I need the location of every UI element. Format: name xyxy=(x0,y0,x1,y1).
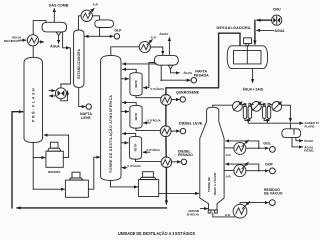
wire residue product xyxy=(240,203,268,205)
svg-text:GOL: GOL xyxy=(263,142,271,146)
drum pre-flash overhead xyxy=(42,22,67,35)
wire agua to CRU line xyxy=(257,28,285,33)
svg-text:D'ÁGUA: D'ÁGUA xyxy=(187,211,200,216)
svg-text:ÁGUA: ÁGUA xyxy=(275,28,286,33)
wire GOL product and return xyxy=(226,141,269,149)
furnace F3 vacuum xyxy=(138,172,158,197)
node querosene product xyxy=(176,91,200,103)
wire vacuum overhead to ejectors xyxy=(213,105,233,107)
heat-exchanger estabilizadora reboiler xyxy=(49,88,66,99)
label agua recircul xyxy=(4,34,22,43)
wire stripper3 vapor return xyxy=(123,134,136,137)
wire stripper1 draw xyxy=(121,78,129,80)
wire steam to vacuum tower xyxy=(187,209,208,217)
svg-text:ÁGUA: ÁGUA xyxy=(183,70,193,75)
svg-text:V. D'ÁGUA: V. D'ÁGUA xyxy=(150,86,164,91)
stripper retificadora 2 diesel leve xyxy=(130,105,142,128)
wire condenser to estab drum xyxy=(92,16,99,20)
node CRU feed xyxy=(272,7,282,25)
node diesel pesado product xyxy=(178,149,193,164)
condenser vessels stage 1 xyxy=(242,104,253,123)
svg-text:RETIF: RETIF xyxy=(134,112,138,120)
node diesel leve product xyxy=(179,122,203,134)
wire atm drum reflux to tower xyxy=(123,63,157,65)
ejector 2 xyxy=(252,102,262,112)
svg-text:GLP: GLP xyxy=(114,29,122,33)
svg-text:ESTABILIZADORA: ESTABILIZADORA xyxy=(77,48,81,79)
caption xyxy=(118,231,195,236)
drum estabilizadora overhead xyxy=(95,20,114,28)
wire atm overhead to condenser xyxy=(111,47,139,56)
svg-text:RETIF: RETIF xyxy=(134,143,138,151)
svg-text:ÓLEO: ÓLEO xyxy=(304,138,313,143)
heat-exchanger GOP cooler A.R xyxy=(226,162,249,178)
node GOL product xyxy=(263,142,275,153)
ejector 3 xyxy=(272,102,282,112)
wire atm drum boot water xyxy=(171,69,194,75)
svg-text:A.R: A.R xyxy=(93,3,99,7)
stripper retificadora 3 diesel pesado xyxy=(129,136,141,159)
stripper retificadora 1 querosene xyxy=(130,73,142,96)
heat-exchanger diesel leve xyxy=(160,126,171,137)
wire long crude return line bottom xyxy=(17,207,166,209)
wire stripper1 bottoms to exchanger xyxy=(136,96,161,98)
svg-text:ÁGUA: ÁGUA xyxy=(159,31,169,36)
svg-text:LEVE: LEVE xyxy=(81,116,91,120)
wire GOL draw xyxy=(224,147,234,149)
svg-text:A.R: A.R xyxy=(226,175,232,179)
wire F2 to atm tower xyxy=(88,157,99,189)
svg-text:PRÉ-FLASH: PRÉ-FLASH xyxy=(31,87,36,122)
wire crude feed into pre-flash xyxy=(12,112,23,208)
column pre-flash tower xyxy=(24,57,43,142)
wire drum line to stripper1 steam xyxy=(144,63,164,91)
svg-text:CRU: CRU xyxy=(273,7,281,11)
svg-text:V. D'ÁGUA: V. D'ÁGUA xyxy=(127,163,141,168)
svg-text:V. D'ÁGUA: V. D'ÁGUA xyxy=(147,147,161,152)
svg-text:RETIF: RETIF xyxy=(134,80,138,88)
wire agua up from atm drum xyxy=(159,31,169,56)
heat-exchanger querosene xyxy=(161,95,172,106)
ejector 1 xyxy=(233,102,243,112)
node nafta pesada product xyxy=(191,70,209,83)
wire diesel leve product xyxy=(171,130,180,132)
svg-text:V. D'ÁGUA: V. D'ÁGUA xyxy=(147,118,161,123)
wire pre-flash overhead to cooler to drum xyxy=(33,21,46,57)
svg-text:TORRE DE: TORRE DE xyxy=(207,177,211,192)
svg-text:DE VÁCUO: DE VÁCUO xyxy=(264,191,283,196)
wire F3 to vacuum tower xyxy=(159,192,199,194)
svg-text:RESID.: RESID. xyxy=(304,149,314,153)
heat-exchanger pre-flash overhead cooler xyxy=(19,35,44,46)
wire nafta pesada from drum xyxy=(160,65,190,81)
wire pre-flash bottoms xyxy=(33,143,64,190)
wire stripper3 bottoms to exchanger xyxy=(136,159,162,161)
wire GOP draw xyxy=(224,169,234,171)
svg-text:DIESEL LEVE: DIESEL LEVE xyxy=(179,122,203,126)
column estabilizadora xyxy=(74,30,84,87)
svg-text:DESSALGADORA: DESSALGADORA xyxy=(217,26,251,30)
wire gas comb xyxy=(49,2,69,22)
node nafta leve product xyxy=(80,104,92,120)
wire hotwell oil out xyxy=(296,138,314,144)
drum atm overhead xyxy=(154,55,178,69)
wire ejector train to hotwell xyxy=(248,105,290,128)
wire diesel pesado product xyxy=(172,161,181,163)
wire stripper2 draw xyxy=(121,111,129,113)
svg-text:PESADA: PESADA xyxy=(194,74,209,78)
wire querosene product xyxy=(171,99,179,101)
column vacuum tower xyxy=(200,107,224,213)
wire GOP product and return xyxy=(226,164,269,171)
svg-text:A.R: A.R xyxy=(151,36,157,40)
svg-text:UNIDADE DE DESTILAÇÃO A 3 ESTÁ: UNIDADE DE DESTILAÇÃO A 3 ESTÁGIOS xyxy=(118,231,195,236)
wire stripper1 vapor return xyxy=(123,69,137,72)
wire desalter crude out to preheat train xyxy=(166,33,240,204)
wire stripper2 vapor return xyxy=(123,103,137,106)
wire estabilizadora bottoms nafta leve xyxy=(79,87,86,106)
wire CRU to desalter xyxy=(255,20,272,44)
wire stripper2 steam xyxy=(144,118,161,123)
svg-text:TORRE DE DESTILAÇÃO ATMOSFÉRIC: TORRE DE DESTILAÇÃO ATMOSFÉRICA xyxy=(108,95,113,173)
wire stripper3 draw xyxy=(121,142,128,144)
wire gases to flare xyxy=(290,121,318,128)
heat-exchanger vacuum residue cooler A.R xyxy=(225,202,249,219)
wire stripper2 bottoms to exchanger xyxy=(136,128,161,130)
wire drum water out xyxy=(50,35,60,48)
svg-text:PESADO: PESADO xyxy=(178,153,193,157)
wire atm bottoms to F3 xyxy=(110,180,137,187)
node residuo de vacuo product xyxy=(264,187,283,206)
svg-text:FLARE: FLARE xyxy=(305,124,315,128)
svg-text:GOP: GOP xyxy=(265,163,273,167)
svg-text:ÁGUA + SAIS: ÁGUA + SAIS xyxy=(243,87,263,92)
wire steam to atm tower xyxy=(122,163,141,168)
svg-text:A.R: A.R xyxy=(226,153,232,157)
furnace F1 pre-flash reboiler xyxy=(46,142,63,174)
wire vacuum bottoms to cooler xyxy=(213,213,235,217)
furnace F2 atmospheric xyxy=(65,172,88,197)
wire estab drum to reflux and GLP xyxy=(85,28,113,37)
svg-text:ÁGUA: ÁGUA xyxy=(50,44,60,49)
heat-exchanger GOL cooler A.R xyxy=(226,140,249,157)
condenser vessels stage 2 xyxy=(261,104,272,123)
heat-exchanger estabilizadora condenser A.R xyxy=(81,3,99,22)
column atmospheric tower xyxy=(101,55,121,180)
svg-text:GÁS COMB: GÁS COMB xyxy=(49,2,69,7)
wire condenser to atm drum xyxy=(150,47,162,54)
vessel dessalgadora xyxy=(217,26,268,69)
svg-text:QUEROSENE: QUEROSENE xyxy=(176,91,200,95)
svg-text:RECIRCUL.: RECIRCUL. xyxy=(4,39,21,43)
wire hotwell water out xyxy=(292,138,314,153)
heat-exchanger diesel pesado xyxy=(161,157,172,168)
svg-text:A.R: A.R xyxy=(225,213,231,217)
wire F1 return to pre-flash xyxy=(44,135,68,158)
node GLP product xyxy=(114,29,122,39)
drum hotwell xyxy=(282,129,301,138)
wire drum liquid to estabilizadora xyxy=(61,32,71,88)
svg-text:REFERV.: REFERV. xyxy=(48,170,61,174)
svg-text:DEST. A VÁCUO: DEST. A VÁCUO xyxy=(212,172,217,195)
wire reboiler return xyxy=(61,91,68,101)
heat-exchanger atm condenser A.R xyxy=(139,36,156,53)
wire desalter brine out xyxy=(243,69,263,92)
wire stripper3 steam xyxy=(143,147,160,152)
node GOP product xyxy=(265,163,275,174)
wire estabilizadora overhead xyxy=(79,16,81,30)
